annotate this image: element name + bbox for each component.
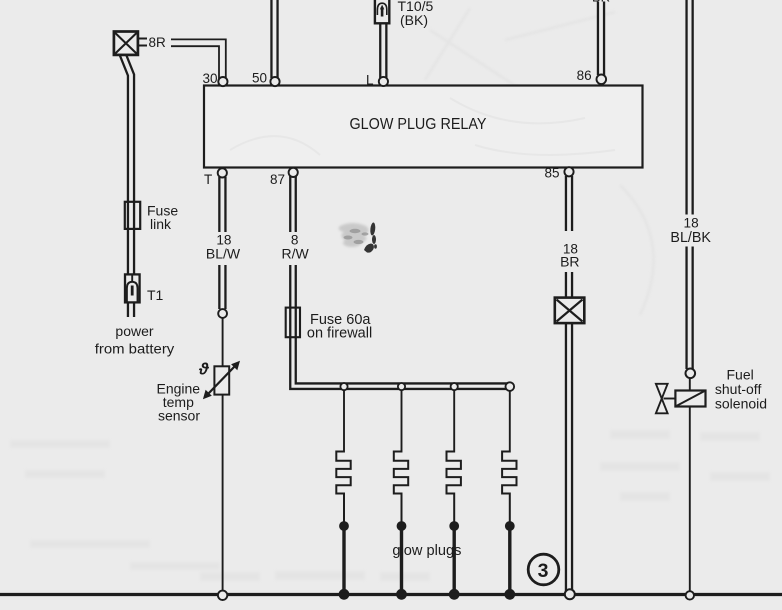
connector T1 <box>125 274 140 302</box>
terminal circle 87 <box>289 168 298 177</box>
connector T10/5 (BK) <box>375 0 389 23</box>
node on bus: glow plug 2 tap <box>398 383 405 390</box>
label 18 BL/BK <box>682 215 699 247</box>
svg-text:3: 3 <box>538 560 549 582</box>
label 18 BL/W <box>215 232 232 265</box>
svg-text:link: link <box>150 216 172 232</box>
wire terminal L up to connector T10/5 <box>379 23 387 78</box>
wire 8R horizontal pair into terminal 30 <box>171 43 222 79</box>
glow plug 4 <box>502 391 516 600</box>
wire terminal 86 up (BR) <box>597 2 605 76</box>
svg-text:(BK): (BK) <box>400 12 428 28</box>
fuse link F <box>125 202 140 229</box>
svg-text:on firewall: on firewall <box>307 326 372 342</box>
terminal circle 85 <box>564 167 573 176</box>
svg-text:BL/W: BL/W <box>206 246 241 262</box>
svg-text:86: 86 <box>577 68 592 83</box>
svg-text:T1: T1 <box>147 287 164 303</box>
node circle above solenoid <box>686 369 696 379</box>
svg-text:T: T <box>204 172 212 187</box>
ground rail <box>0 593 782 596</box>
terminal circle T <box>218 168 227 177</box>
svg-text:power: power <box>115 323 153 339</box>
terminal circle 86 <box>597 75 607 85</box>
relay box U: GLOW PLUG RELAY <box>204 86 643 168</box>
fuse F: Fuse 60a on firewall <box>286 308 300 338</box>
svg-text:GLOW PLUG RELAY: GLOW PLUG RELAY <box>350 116 488 133</box>
svg-text:solenoid: solenoid <box>715 396 767 412</box>
engine temp sensor (variable resistor) <box>203 361 240 399</box>
svg-text:50: 50 <box>252 71 267 86</box>
svg-text:BR: BR <box>592 0 610 5</box>
wire terminal T down to sensor node <box>218 177 226 309</box>
wire node to solenoid <box>689 378 691 391</box>
svg-text:BL/BK: BL/BK <box>670 230 711 246</box>
node circle on BL/W wire <box>218 309 227 318</box>
wire terminal 50 up <box>270 0 278 78</box>
wire terminal 87 down through fuse to glow plug bus <box>293 176 510 386</box>
terminal circle L <box>379 77 388 86</box>
svg-text:sensor: sensor <box>158 408 200 424</box>
label 18 BR <box>561 231 578 272</box>
crossed box connector on BR wire <box>555 298 585 324</box>
crossed box connector (8R) <box>114 32 147 55</box>
wire terminal 85 down to ground rail <box>565 176 573 592</box>
terminal circle 50 <box>270 77 279 86</box>
svg-text:L: L <box>366 73 374 88</box>
svg-text:Fuel: Fuel <box>727 366 754 382</box>
svg-text:30: 30 <box>202 71 217 86</box>
node: sensor wire to rail <box>218 591 227 600</box>
glow plug 1 <box>336 390 350 600</box>
wire from crossed box down to fuse link <box>122 53 131 318</box>
terminal circle 30 <box>218 77 227 86</box>
svg-text:87: 87 <box>270 172 285 187</box>
svg-text:18: 18 <box>684 216 699 231</box>
svg-text:ϑ: ϑ <box>198 361 210 379</box>
svg-text:8R: 8R <box>149 35 167 50</box>
node on bus: glow plug 1 tap <box>340 383 347 390</box>
circled 3 current track label <box>528 554 559 585</box>
svg-text:from battery: from battery <box>95 340 175 356</box>
node on bus: glow plug 3 tap <box>451 383 458 390</box>
single wire from node down to ground rail <box>222 318 224 592</box>
ink smudge <box>339 223 369 247</box>
svg-text:R/W: R/W <box>281 246 309 262</box>
svg-text:85: 85 <box>544 166 559 181</box>
glow plug 3 <box>447 390 461 600</box>
label 8 R/W <box>286 232 301 265</box>
wire 18 BL/BK right side <box>685 0 693 369</box>
svg-text:BR: BR <box>560 253 579 269</box>
node: solenoid wire to rail <box>686 591 694 599</box>
node on bus: glow plug 4 tap (bus end) <box>506 382 515 391</box>
wire solenoid down to ground rail <box>689 407 691 593</box>
svg-text:glow plugs: glow plugs <box>392 543 461 559</box>
fuel shut-off solenoid N9 <box>656 384 706 414</box>
glow plug 2 <box>394 390 408 600</box>
node: BR wire to rail <box>565 589 575 599</box>
